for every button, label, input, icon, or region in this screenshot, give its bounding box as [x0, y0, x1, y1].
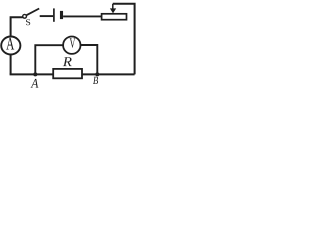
rheostat slider stem: [112, 4, 114, 9]
battery positive plate (long): [53, 8, 55, 21]
voltmeter circle: [63, 37, 80, 54]
switch S pivot: [23, 14, 27, 18]
voltmeter letter V: [70, 38, 76, 48]
wire: voltmeter branch left (node A up and over): [35, 45, 63, 74]
switch S blade: [27, 9, 40, 16]
wire: slider over top to right rail: [113, 4, 135, 75]
junction node A: [33, 72, 37, 76]
rheostat slider arrowhead: [110, 8, 116, 13]
wire: voltmeter branch right (node B up and over): [80, 45, 97, 74]
resistor R body: [53, 69, 82, 78]
junction node B: [95, 72, 99, 76]
wire: left rail lower segment: [10, 55, 12, 75]
wire: bottom rail: [10, 73, 135, 75]
ammeter letter A: [6, 38, 14, 50]
wire: switch contact to battery: [40, 15, 54, 17]
label A: [31, 79, 39, 88]
battery negative plate (short thick): [60, 11, 63, 19]
rheostat body: [102, 14, 127, 20]
label B: [93, 77, 98, 84]
label R: [63, 57, 72, 66]
ammeter circle: [1, 37, 20, 55]
label S: [26, 19, 30, 25]
wire: top-left corner (left rail upper + top run to switch): [11, 17, 23, 36]
wire: battery to rheostat: [63, 15, 101, 17]
